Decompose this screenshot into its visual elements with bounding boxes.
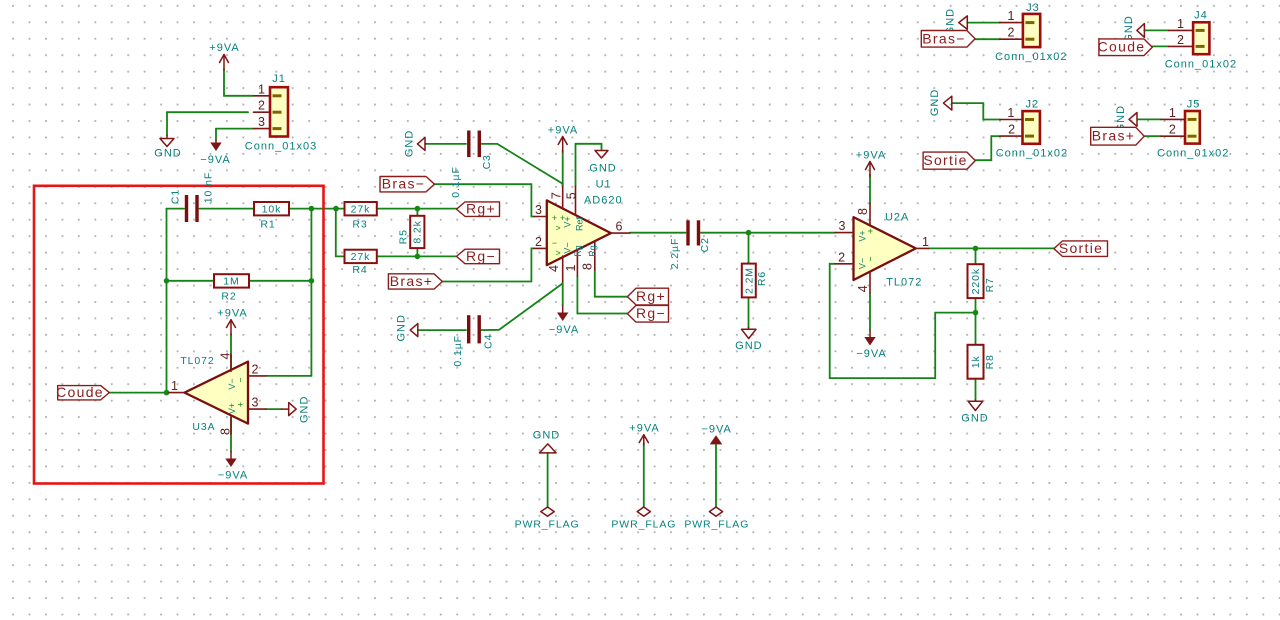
svg-text:Conn_01x02: Conn_01x02 bbox=[1165, 59, 1237, 71]
svg-text:1: 1 bbox=[1169, 106, 1176, 120]
svg-text:−9VA: −9VA bbox=[701, 424, 731, 436]
svg-text:PWR_FLAG: PWR_FLAG bbox=[611, 519, 676, 531]
svg-text:Rg: Rg bbox=[573, 245, 583, 257]
svg-text:U3A: U3A bbox=[192, 421, 215, 433]
svg-text:U1: U1 bbox=[596, 179, 612, 191]
svg-text:2: 2 bbox=[1008, 26, 1015, 40]
svg-text:GND: GND bbox=[154, 148, 181, 160]
svg-text:Bras+: Bras+ bbox=[390, 273, 433, 289]
svg-text:TL072: TL072 bbox=[180, 355, 214, 367]
svg-text:GND: GND bbox=[396, 314, 408, 341]
svg-text:R5: R5 bbox=[397, 229, 409, 244]
svg-text:+9VA: +9VA bbox=[856, 150, 886, 162]
svg-text:PWR_FLAG: PWR_FLAG bbox=[684, 519, 749, 531]
svg-text:Coude: Coude bbox=[1098, 39, 1146, 55]
svg-text:V−: V− bbox=[562, 242, 572, 253]
svg-text:Conn_01x02: Conn_01x02 bbox=[1157, 148, 1229, 160]
svg-text:2: 2 bbox=[252, 362, 259, 376]
svg-text:−9VA: −9VA bbox=[218, 470, 248, 482]
svg-text:+9VA: +9VA bbox=[548, 125, 578, 137]
svg-text:−: − bbox=[552, 238, 557, 248]
svg-text:J5: J5 bbox=[1187, 99, 1201, 111]
svg-text:V+: V+ bbox=[562, 216, 572, 227]
svg-text:27k: 27k bbox=[351, 204, 371, 216]
svg-text:8.2k: 8.2k bbox=[412, 220, 424, 243]
svg-text:Rg: Rg bbox=[587, 245, 597, 257]
svg-text:2: 2 bbox=[535, 235, 542, 249]
svg-text:>: > bbox=[555, 248, 560, 258]
svg-text:5: 5 bbox=[565, 192, 579, 199]
svg-text:J4: J4 bbox=[1194, 10, 1208, 22]
svg-text:R2: R2 bbox=[221, 291, 236, 303]
svg-text:J1: J1 bbox=[272, 73, 286, 85]
svg-text:3: 3 bbox=[258, 115, 265, 129]
svg-text:2: 2 bbox=[1169, 123, 1176, 137]
svg-text:U2A: U2A bbox=[885, 212, 909, 224]
svg-text:PWR_FLAG: PWR_FLAG bbox=[515, 519, 580, 531]
svg-text:2.2µF: 2.2µF bbox=[669, 238, 681, 270]
svg-text:Conn_01x02: Conn_01x02 bbox=[996, 148, 1068, 160]
svg-text:+: + bbox=[865, 228, 875, 233]
svg-text:Rg−: Rg− bbox=[466, 248, 496, 264]
svg-text:GND: GND bbox=[589, 163, 616, 175]
svg-text:+9VA: +9VA bbox=[217, 308, 247, 320]
svg-text:>: > bbox=[555, 223, 560, 233]
svg-text:6: 6 bbox=[616, 220, 623, 234]
svg-text:1: 1 bbox=[258, 82, 265, 96]
svg-text:−9VA: −9VA bbox=[549, 324, 579, 336]
svg-text:Rg+: Rg+ bbox=[636, 288, 666, 304]
svg-text:GND: GND bbox=[929, 89, 941, 116]
svg-text:+: + bbox=[552, 213, 557, 223]
svg-text:1: 1 bbox=[564, 264, 578, 271]
svg-text:Rg−: Rg− bbox=[636, 305, 666, 321]
svg-text:GND: GND bbox=[961, 413, 988, 425]
svg-text:J3: J3 bbox=[1026, 2, 1040, 14]
svg-text:2: 2 bbox=[1008, 123, 1015, 137]
svg-text:10k: 10k bbox=[262, 204, 282, 216]
svg-text:1M: 1M bbox=[223, 276, 239, 288]
svg-text:+9VA: +9VA bbox=[629, 423, 659, 435]
svg-text:Sortie: Sortie bbox=[1059, 240, 1103, 256]
svg-text:3: 3 bbox=[839, 219, 846, 233]
svg-text:Conn_01x02: Conn_01x02 bbox=[995, 51, 1067, 63]
svg-text:−: − bbox=[235, 377, 245, 382]
svg-text:TL072: TL072 bbox=[886, 277, 922, 289]
svg-text:2: 2 bbox=[838, 250, 845, 264]
svg-text:R7: R7 bbox=[984, 277, 996, 292]
svg-text:Bras+: Bras+ bbox=[1092, 128, 1135, 144]
svg-text:−9VA: −9VA bbox=[200, 154, 230, 166]
svg-text:GND: GND bbox=[404, 130, 416, 157]
svg-text:7: 7 bbox=[550, 192, 564, 199]
svg-text:1: 1 bbox=[1007, 106, 1014, 120]
svg-text:4: 4 bbox=[219, 352, 233, 359]
svg-text:8: 8 bbox=[219, 428, 233, 435]
svg-text:R3: R3 bbox=[352, 219, 367, 231]
svg-text:R4: R4 bbox=[352, 264, 367, 276]
svg-text:+9VA: +9VA bbox=[209, 42, 239, 54]
svg-text:3: 3 bbox=[252, 396, 259, 410]
svg-text:2.2M: 2.2M bbox=[743, 267, 755, 294]
svg-text:1: 1 bbox=[1177, 17, 1184, 31]
svg-text:GND: GND bbox=[299, 396, 311, 423]
svg-text:4: 4 bbox=[856, 285, 870, 292]
svg-text:1: 1 bbox=[1008, 9, 1015, 23]
svg-text:1k: 1k bbox=[970, 355, 982, 368]
svg-text:Bras−: Bras− bbox=[922, 30, 965, 46]
svg-text:+: + bbox=[235, 402, 245, 407]
svg-text:C4: C4 bbox=[483, 334, 495, 349]
svg-text:GND: GND bbox=[533, 430, 560, 442]
svg-text:8: 8 bbox=[581, 263, 595, 270]
svg-text:2: 2 bbox=[258, 99, 265, 113]
svg-text:1: 1 bbox=[171, 379, 178, 393]
svg-text:8: 8 bbox=[856, 208, 870, 215]
svg-text:10 nF: 10 nF bbox=[203, 172, 215, 203]
svg-text:AD620: AD620 bbox=[584, 195, 623, 207]
svg-text:Ref: Ref bbox=[574, 217, 584, 232]
svg-text:27k: 27k bbox=[351, 251, 371, 263]
svg-text:4: 4 bbox=[547, 265, 561, 272]
svg-text:C3: C3 bbox=[481, 154, 493, 169]
svg-text:Conn_01x03: Conn_01x03 bbox=[245, 141, 317, 153]
svg-text:Coude: Coude bbox=[56, 384, 104, 400]
svg-text:GND: GND bbox=[735, 340, 762, 352]
svg-text:2: 2 bbox=[1177, 33, 1184, 47]
svg-text:R8: R8 bbox=[984, 354, 996, 369]
svg-text:Sortie: Sortie bbox=[923, 152, 967, 168]
svg-text:R6: R6 bbox=[756, 271, 768, 286]
svg-text:Rg+: Rg+ bbox=[466, 201, 496, 217]
svg-text:C1: C1 bbox=[170, 189, 182, 204]
svg-text:0.1µF: 0.1µF bbox=[452, 335, 464, 367]
svg-text:−: − bbox=[865, 256, 875, 261]
svg-text:3: 3 bbox=[535, 203, 542, 217]
svg-text:J2: J2 bbox=[1025, 99, 1039, 111]
svg-text:−9VA: −9VA bbox=[856, 348, 886, 360]
svg-text:C2: C2 bbox=[699, 237, 711, 252]
svg-text:1: 1 bbox=[922, 235, 929, 249]
svg-text:220k: 220k bbox=[970, 268, 982, 294]
svg-text:R1: R1 bbox=[260, 219, 275, 231]
svg-text:0.1µF: 0.1µF bbox=[450, 166, 462, 198]
svg-text:Bras−: Bras− bbox=[382, 176, 425, 192]
